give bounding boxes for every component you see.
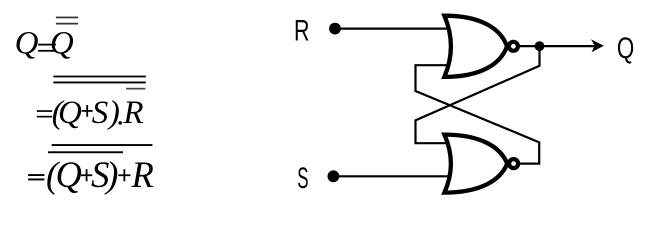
node Q junction dot bbox=[535, 41, 545, 51]
svg-text:): ) bbox=[107, 95, 120, 131]
svg-text:Q: Q bbox=[58, 95, 82, 131]
math line 2 plus sign bbox=[82, 110, 93, 112]
math line 3 equals sign bbox=[28, 174, 44, 176]
math line 1 equals sign bbox=[38, 44, 56, 46]
math line 3 plus sign before R bbox=[118, 174, 130, 176]
arrowhead to Q bbox=[591, 39, 604, 52]
svg-text:Q: Q bbox=[50, 26, 74, 62]
math line 3 plus sign inside parens bbox=[81, 174, 92, 176]
svg-text:Q: Q bbox=[56, 154, 82, 195]
inner overline line3 bbox=[48, 151, 123, 153]
wire S input bbox=[333, 175, 450, 177]
node R input dot bbox=[329, 23, 341, 35]
bar over R line2 bbox=[126, 88, 145, 90]
math line 2 product dot bbox=[118, 121, 122, 125]
wire Q output bbox=[519, 45, 598, 47]
wire R input bbox=[335, 28, 449, 30]
wire feedback from Q junction to lower gate input bbox=[416, 46, 540, 143]
double overbar over Q line1 bbox=[56, 17, 78, 19]
long overline line3 bbox=[52, 144, 153, 146]
NOR gate U1 (top) bbox=[444, 16, 507, 77]
svg-text:Q: Q bbox=[15, 26, 39, 62]
svg-text:R: R bbox=[294, 13, 310, 47]
node S input dot bbox=[328, 170, 340, 182]
long double overline line2 bbox=[53, 76, 145, 78]
wire feedback from lower gate output to top gate input bbox=[416, 65, 540, 163]
bubble U1 bbox=[509, 42, 518, 51]
svg-text:S: S bbox=[92, 95, 109, 131]
bubble U2 bbox=[509, 159, 518, 168]
math line 2 equals sign bbox=[37, 110, 52, 112]
NOR gate U2 (bottom) bbox=[444, 135, 507, 193]
svg-text:R: R bbox=[122, 95, 143, 131]
svg-text:Q: Q bbox=[617, 31, 634, 65]
svg-text:S: S bbox=[297, 162, 308, 195]
svg-text:): ) bbox=[104, 154, 118, 195]
svg-text:R: R bbox=[131, 154, 154, 195]
